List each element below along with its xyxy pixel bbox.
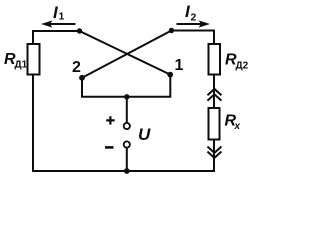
svg-text:x: x: [234, 121, 241, 132]
svg-text:2: 2: [191, 12, 197, 24]
svg-text:Д2: Д2: [236, 61, 249, 72]
svg-text:2: 2: [72, 59, 81, 76]
svg-text:1: 1: [59, 11, 65, 23]
svg-text:1: 1: [175, 57, 184, 74]
svg-text:U: U: [138, 125, 151, 144]
svg-text:Д1: Д1: [15, 60, 28, 71]
